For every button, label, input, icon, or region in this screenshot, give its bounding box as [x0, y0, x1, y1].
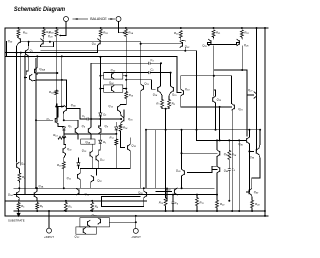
resistor R10 — [159, 198, 167, 206]
resistor R5 — [17, 203, 25, 210]
svg-text:BALANCE: BALANCE — [90, 17, 107, 21]
junction boxA left — [99, 75, 101, 77]
wire Q19 col — [180, 76, 182, 89]
transistor Q45 — [238, 137, 249, 147]
transistor Q26 — [237, 39, 250, 47]
wire x151 vert — [155, 130, 157, 188]
junction rail211 x217 — [216, 210, 218, 212]
wire Q51 col — [64, 134, 66, 147]
transistor Q47a — [217, 150, 229, 157]
junction y79.9-x61.8 — [61, 79, 63, 81]
label -INPUT — [131, 235, 141, 239]
transistor Q3C — [88, 220, 91, 227]
resistor R4 — [91, 202, 99, 211]
junction boxB left — [99, 88, 101, 90]
junction x61.8 top — [61, 55, 63, 57]
junction Q39 emi — [181, 187, 183, 189]
transistor Q31 — [17, 162, 26, 169]
wire loop1 right drop — [196, 51, 198, 141]
wire C1 left — [80, 118, 87, 120]
transistor Q49 — [249, 189, 259, 196]
wire D3 top — [99, 134, 101, 140]
wire x100 vert — [99, 57, 101, 113]
transistor Q13 — [141, 82, 150, 91]
diode D2 — [62, 127, 65, 130]
resistor R22 — [240, 30, 249, 37]
wire bus y129 — [146, 129, 260, 131]
wire Q46 base link — [249, 150, 253, 152]
wire rail y215 — [5, 215, 268, 217]
wire mirror bus — [64, 133, 116, 135]
wire balance-right stem — [119, 22, 124, 33]
wire y70 stub — [214, 69, 247, 71]
junction rail211 x37.2 — [36, 210, 38, 212]
junction y140-x229 — [228, 139, 230, 141]
wire left vertical x20.8 — [20, 53, 22, 165]
junction top R1B2 — [100, 27, 102, 29]
junction Q2A col — [36, 187, 38, 189]
wire y79.9 bus — [38, 79, 67, 81]
wire R14 bot — [121, 131, 125, 147]
transistor Q6 — [82, 124, 91, 134]
junction x219-y140 — [219, 139, 221, 141]
title text — [14, 6, 66, 13]
wire Q30 darl — [37, 73, 57, 74]
wire Q28 base bus — [20, 41, 105, 43]
wire R14b bot — [228, 160, 230, 169]
resistor R15 — [17, 29, 28, 36]
wire Q39 col — [181, 153, 183, 169]
junction Q45 emi node — [248, 150, 250, 152]
wire Q25 collector drop — [213, 46, 215, 52]
resistor R1A2 — [49, 90, 58, 95]
wire x213 upper — [213, 52, 215, 96]
wire Q9 col — [92, 144, 94, 151]
wire D4 top — [77, 158, 79, 162]
wire vert x75.2 up — [64, 120, 78, 127]
wire Q5A base drop — [65, 80, 67, 106]
junction C1-D1 — [99, 118, 101, 120]
wire left bus x6.5 — [6, 42, 8, 57]
resistor R8 — [168, 100, 176, 108]
wire x167 vert — [166, 188, 168, 201]
junction rail211 x252.1 — [251, 210, 253, 212]
junction top R22 — [241, 27, 243, 29]
junction rail x256 — [256, 27, 258, 29]
wire boxB right stub — [123, 88, 126, 90]
wire Q22 base bus — [105, 42, 183, 44]
transistor Q21 — [92, 39, 101, 46]
wire R18 bot — [63, 169, 65, 189]
wire Q32 col — [129, 138, 131, 144]
svg-text:+INPUT: +INPUT — [44, 235, 54, 239]
wire Q25-Q26 base bus — [208, 43, 240, 45]
wire C2 loop b — [150, 72, 170, 74]
transistor Q14 — [76, 188, 90, 196]
transistor Q1b — [46, 117, 58, 124]
junction rail211 x18.6 — [18, 210, 20, 212]
resistor R2 — [18, 173, 26, 181]
wire Q45 emi — [248, 144, 250, 152]
junction Q29 base — [49, 41, 51, 43]
transistor Q30 — [35, 67, 46, 75]
junction y52.6 a — [16, 52, 18, 54]
wire Q27 base stub — [247, 94, 254, 96]
capacitor C3b — [228, 168, 236, 173]
diode D3 — [99, 140, 107, 145]
wire Q12 col — [90, 182, 92, 188]
resistor R1A — [124, 29, 133, 36]
junction Q28 base bus — [28, 41, 30, 43]
junction rail211 x239.2 — [238, 210, 240, 212]
pin -INPUT — [133, 228, 138, 233]
wire Q39 base wire — [187, 170, 212, 173]
wire Q14p emi — [161, 93, 163, 100]
wire +input stem — [48, 211, 50, 228]
arrow into R1A — [123, 32, 125, 34]
junction Q26-y70 — [241, 69, 243, 71]
wire mirror drop a — [77, 134, 79, 139]
transistor Q16 — [121, 116, 133, 123]
wire Q1 col — [27, 42, 29, 49]
resistor R21 — [212, 30, 220, 37]
wire R14b top — [228, 140, 230, 150]
wire Q33 loop — [102, 197, 144, 207]
wire boxA left stub — [100, 75, 103, 77]
wire R10 top — [165, 195, 167, 198]
wire C1 right — [89, 118, 121, 120]
wire Q12b col — [99, 150, 101, 155]
transistor Q1A — [8, 191, 19, 198]
wire Q28 emitter — [17, 35, 20, 38]
wire boxB left stub — [100, 88, 103, 90]
transistor Q9 — [82, 149, 93, 158]
transistor Q5A — [64, 103, 77, 112]
resistor R7 — [156, 100, 163, 108]
wire R24 bot — [251, 208, 253, 211]
wire R11 top — [196, 195, 198, 198]
pin +INPUT — [47, 228, 52, 233]
resistor R16 — [42, 29, 51, 36]
wire Q14p col up — [160, 63, 163, 86]
resistor R14b — [228, 150, 237, 159]
junction top R15 — [17, 27, 19, 29]
transistor Q5 — [68, 124, 78, 134]
junction Q1b base — [35, 119, 37, 121]
wire Q44 col — [176, 187, 178, 189]
junction x140 bus2 — [140, 43, 142, 45]
resistor R14 — [119, 124, 128, 131]
junction C4 top — [172, 194, 174, 196]
wire Q31 emi — [18, 169, 20, 173]
capacitor C2 — [149, 67, 155, 74]
wire D4b bot — [115, 131, 117, 134]
wire Q30b base stub — [25, 77, 27, 79]
wire Q1b col — [57, 107, 59, 117]
svg-text:−INPUT: −INPUT — [131, 235, 141, 239]
transistor Q1C — [92, 213, 101, 224]
wire Q21r col — [231, 76, 233, 104]
pin BALANCE right — [116, 17, 121, 22]
wire Q13 emi dn — [140, 91, 142, 188]
wire Q20 emi — [215, 103, 217, 130]
junction y79-x126 — [125, 79, 127, 81]
transistor Q44 — [166, 187, 177, 195]
wire C3 loop — [91, 63, 148, 119]
resistor R6 — [36, 203, 44, 210]
wire rail y194 — [14, 194, 217, 196]
box clamp2 — [76, 227, 96, 234]
wire Q16 drop — [120, 122, 123, 124]
wire bus y140 — [197, 139, 246, 141]
wire Q48 emi — [216, 173, 218, 200]
wire y75 stub — [181, 75, 232, 77]
transistor Q8 — [98, 124, 108, 134]
wire left vertical x24.9 — [24, 56, 26, 194]
wire C4 vert b — [172, 204, 174, 211]
wire Q11-Q12 bus — [80, 169, 130, 173]
wire R3 top — [65, 201, 67, 203]
junction loop1-bus129 — [196, 129, 198, 131]
junction node y106 a — [55, 106, 57, 108]
wire R3 bot — [65, 210, 67, 212]
wire Q47a emi — [216, 157, 218, 167]
transistor Q25 — [202, 39, 211, 48]
wire vert x63.9 b — [63, 131, 65, 134]
wire Q30b emi — [32, 80, 38, 81]
junction C1-Q6 — [90, 118, 92, 120]
wire x61.8 branch — [61, 56, 63, 106]
junction Q48 rail194 — [216, 194, 218, 196]
resistor R18 — [57, 162, 65, 169]
wire Q19 emi — [180, 96, 182, 107]
transistor Q46 — [250, 148, 260, 159]
resistor R3 — [64, 202, 72, 211]
resistor R11 — [196, 198, 204, 206]
junction node y106 b — [61, 106, 63, 108]
label +INPUT — [44, 235, 54, 239]
transistor Q23c — [112, 72, 115, 79]
wire vert x101 up — [98, 126, 100, 127]
wire Q49 col — [252, 178, 260, 189]
transistor Q2A — [34, 184, 44, 198]
wire Q46 emi — [259, 155, 260, 178]
transistor Q24c — [112, 85, 115, 92]
wire Q5A base — [66, 109, 80, 120]
resistor R1B2 — [99, 29, 108, 36]
wire x239 vert — [238, 140, 240, 211]
wire Q26 collector drop — [241, 46, 243, 70]
junction boxB right — [125, 88, 127, 90]
wire clamp tie — [110, 221, 136, 223]
wire Q45 col — [248, 130, 250, 137]
wire left vertical x5 — [4, 28, 6, 215]
wire x181 drop — [181, 130, 183, 153]
wire Q32 emi — [129, 151, 131, 169]
junction x181-bus — [181, 129, 183, 131]
transistor Q1 left — [25, 48, 33, 56]
label SUBSTRATE — [8, 218, 25, 222]
junction top R1A — [125, 27, 127, 29]
capacitor C3 — [149, 58, 155, 65]
wire D1 drop — [99, 117, 101, 126]
transistor Q32 — [128, 144, 137, 151]
wire Q15 col — [119, 104, 121, 107]
wire x247 vert — [246, 70, 248, 136]
wire Q46 col — [259, 130, 260, 148]
transistor Q20 — [213, 96, 222, 103]
junction boxA right — [125, 75, 127, 77]
svg-text:Schematic Diagram: Schematic Diagram — [14, 6, 66, 13]
junction y52.6 b — [20, 52, 22, 54]
wire R19 bot — [120, 99, 126, 105]
wire Q11 emi — [79, 180, 81, 188]
junction rail211 x65.9 — [65, 210, 67, 212]
wire D3 bot — [99, 144, 101, 150]
junction R17-bus — [115, 133, 117, 135]
wire loop2 top — [5, 55, 177, 57]
wire rail y210 — [14, 210, 265, 212]
junction -in rail215 — [135, 215, 137, 217]
wire Q28 collector drop — [17, 44, 18, 53]
diode D1 — [99, 113, 107, 118]
junction y75-x213 — [213, 75, 215, 77]
balance label + arrows — [73, 17, 116, 21]
junction Q30 col — [36, 55, 38, 57]
wire Q44 base — [156, 191, 172, 193]
resistor R13 — [53, 133, 66, 139]
wire C2 loop — [104, 72, 149, 74]
wire Q39 emi — [181, 176, 183, 188]
junction C1 right — [120, 118, 122, 120]
junction x63 y120 — [63, 119, 65, 121]
transistor Q48 — [217, 166, 229, 173]
junction y73-R1B — [56, 72, 58, 74]
wire Q1b base — [36, 119, 52, 121]
wire bus y52.6 — [5, 52, 97, 54]
junction y107-x219 — [219, 106, 221, 108]
junction rail211 x264.9 — [264, 210, 266, 212]
wire R1A2 top — [55, 59, 57, 90]
transistor Q29 — [40, 34, 53, 46]
wire right vertical B — [264, 28, 266, 215]
diode D4 — [77, 163, 80, 166]
wire Q2A emi — [36, 198, 38, 203]
wire Q1b emi — [58, 124, 64, 127]
transistor Q51 — [63, 147, 72, 154]
resistor R19 — [125, 92, 134, 99]
wire tail drop — [165, 109, 167, 195]
junction Q1 emi — [27, 55, 29, 57]
wire bus y107 — [181, 106, 232, 108]
junction Q1A col — [18, 187, 20, 189]
junction Q20emi-bus — [215, 129, 217, 131]
resistor R24 — [251, 200, 261, 208]
wire x57 drop — [56, 104, 58, 122]
wire loop1 top — [41, 50, 197, 52]
pin BALANCE left — [64, 17, 69, 22]
junction x265 bot — [264, 215, 266, 217]
wire R6 bot — [36, 209, 38, 211]
junction Q22-loop1 — [184, 50, 186, 52]
wire rail y188 — [14, 187, 214, 189]
wire Q16 base tie — [123, 110, 125, 117]
resistor R17 — [110, 135, 118, 145]
wire Q12b emi — [98, 161, 100, 168]
junction Q45-bus — [248, 129, 250, 131]
wire boxA right stub — [123, 75, 126, 77]
wire mirror drop b — [90, 134, 92, 139]
wire Q51 emi — [64, 154, 66, 162]
resistor R20 — [174, 31, 182, 39]
wire Q15p emi — [169, 93, 171, 100]
junction top R20 — [180, 27, 182, 29]
wire R17 bot — [115, 145, 117, 169]
junction rail211 x49 — [48, 210, 50, 212]
wire Q22 collector — [184, 48, 186, 51]
junction rail200 x65.9 — [65, 200, 67, 202]
transistor Q27r — [248, 88, 257, 98]
capacitor C4 — [172, 201, 179, 206]
wire C4 vert — [172, 195, 174, 202]
junction rail200 x92.2 — [91, 200, 93, 202]
wire Q25 emitter — [213, 37, 215, 39]
transistor Q19 — [181, 87, 191, 96]
wire Q1A emi — [18, 198, 21, 203]
junction C3b rail — [228, 200, 230, 202]
box clamp — [80, 218, 110, 227]
junction R10 top — [165, 194, 167, 196]
wire x219 vert — [219, 107, 221, 140]
box Q23 — [104, 68, 123, 79]
arrow into R1B — [59, 35, 61, 37]
junction x239 top — [238, 139, 240, 141]
junction x213 y75 — [213, 75, 215, 77]
diode D4b — [115, 124, 123, 130]
wire x146 vert — [145, 130, 147, 189]
wire R17 top — [115, 134, 117, 139]
transistor Q12 — [91, 175, 103, 183]
wire Q9 emi — [92, 158, 94, 169]
junction tail-bus — [165, 129, 167, 131]
junction y56.2 b — [24, 55, 26, 57]
wire Q12 base drop — [95, 169, 97, 176]
wire R5 bot — [18, 209, 20, 211]
wire Q1-Q3 link — [26, 56, 28, 74]
junction x100 loop2 — [99, 56, 101, 58]
svg-text:SUBSTRATE: SUBSTRATE — [8, 218, 25, 222]
wire D4 bot — [77, 166, 79, 168]
wire C3 loop b — [150, 62, 161, 64]
transistor Q39 — [176, 169, 185, 176]
junction rail211 x92.2 — [91, 210, 93, 212]
wire Q25 base link — [208, 43, 212, 45]
transistor Q4C — [75, 227, 86, 239]
wire R1B drop — [55, 36, 57, 58]
junction R18 rail — [63, 187, 65, 189]
wire left vertical x36 — [35, 59, 37, 189]
wire Q33 col — [143, 188, 145, 191]
wire Q47a col — [216, 140, 218, 149]
wire x249 lower — [246, 151, 249, 192]
wire V+ rail — [5, 27, 268, 29]
wire vert x140 upper — [140, 44, 142, 84]
junction x181-y153 — [181, 152, 183, 154]
wire R12 bot — [216, 208, 218, 211]
wire Q1A col — [18, 188, 20, 191]
wire Q15 chain — [119, 112, 122, 116]
junction pair tail — [165, 108, 167, 110]
